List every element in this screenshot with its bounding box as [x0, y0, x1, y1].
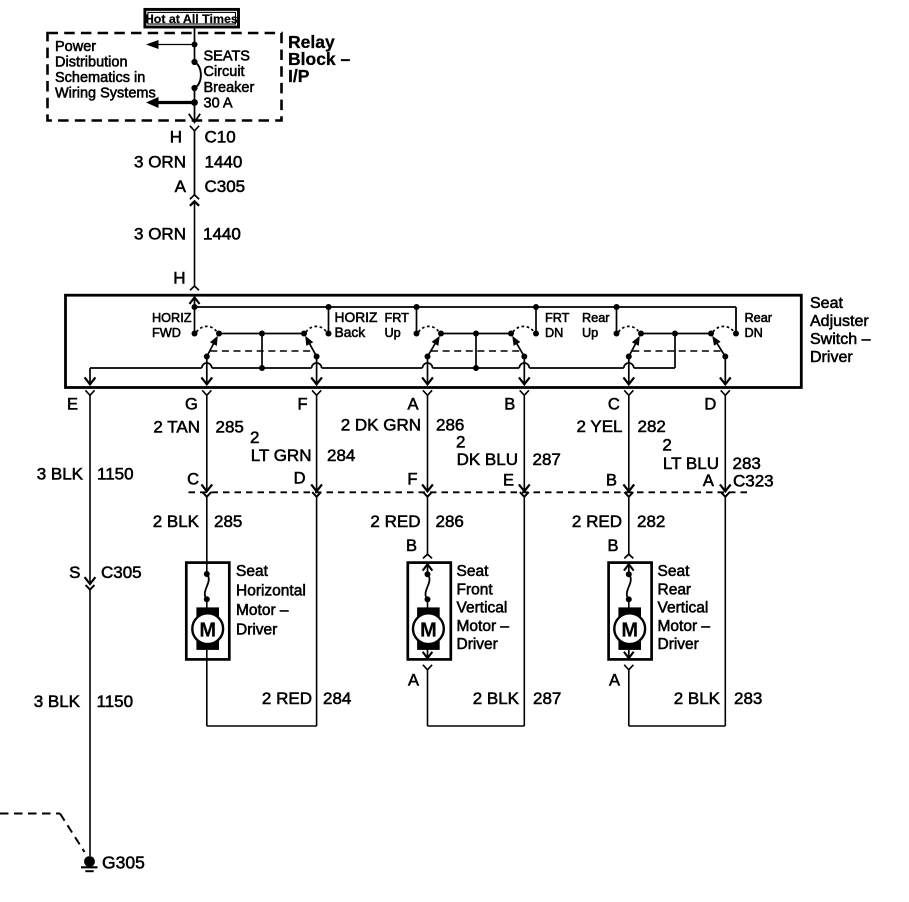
- wire motor 2 lower arrow: [423, 650, 431, 658]
- label 2 DK GRN 286: [341, 415, 465, 434]
- svg-text:Seat: Seat: [810, 295, 843, 312]
- label FRT Up: [385, 311, 410, 340]
- svg-text:Power: Power: [55, 39, 96, 55]
- svg-text:H: H: [170, 128, 182, 147]
- connector C323 pin C: [202, 485, 211, 497]
- svg-text:Up: Up: [385, 326, 401, 340]
- label A C305: [175, 177, 245, 196]
- svg-text:2 BLK: 2 BLK: [674, 689, 721, 708]
- seat adjuster switch box outline: [66, 295, 802, 387]
- wire blade output HORIZ FWD: [202, 357, 211, 385]
- label C323: [733, 472, 774, 491]
- thick feed arrow: [146, 97, 195, 108]
- wire terminal G down: [206, 395, 208, 491]
- connector C305 inline terminal S: [85, 578, 94, 856]
- svg-text:Seat: Seat: [658, 563, 691, 580]
- svg-text:A: A: [407, 396, 418, 414]
- connector fork terminal B: [520, 390, 529, 395]
- connector fork terminal G: [202, 390, 211, 395]
- thin arrow to power distribution: [146, 40, 195, 49]
- wire feed stub Rear Up: [616, 307, 618, 334]
- label 2 RED 286: [370, 512, 463, 531]
- switch travel arc FRT Up: [419, 326, 440, 332]
- node contact FRT Up: [414, 331, 420, 337]
- svg-text:Breaker: Breaker: [204, 80, 255, 96]
- svg-text:2: 2: [250, 428, 259, 447]
- node bus junction Rear Up: [614, 304, 620, 310]
- seat rear vertical motor box: [609, 563, 652, 660]
- connector fork terminal D: [721, 390, 730, 395]
- svg-text:B: B: [607, 537, 618, 555]
- mechanical link pair 3: [632, 350, 722, 352]
- svg-text:Motor –: Motor –: [236, 602, 289, 619]
- svg-text:2 RED: 2 RED: [370, 512, 420, 531]
- label terminal D: [704, 396, 716, 414]
- common bar pair 1: [216, 331, 307, 337]
- label terminal A: [407, 396, 418, 414]
- label G305: [102, 853, 145, 873]
- label C323 pin C: [187, 471, 199, 489]
- mechanical link pair 2: [431, 350, 521, 352]
- motor M2 internals: [413, 564, 444, 650]
- wire E riser motor 2 return: [428, 497, 525, 726]
- label 2 BLK 287: [473, 689, 562, 708]
- label C323 pin E: [503, 472, 514, 490]
- wire feed stub FRT DN: [535, 307, 537, 334]
- node contact FRT DN: [533, 331, 539, 337]
- label H C10: [170, 128, 236, 147]
- switch blade Rear DN: [712, 336, 728, 360]
- label Seat Adjuster Switch - Driver: [810, 295, 871, 366]
- svg-text:FWD: FWD: [152, 326, 181, 340]
- svg-text:283: 283: [733, 454, 761, 473]
- label C323 pin A: [703, 472, 714, 490]
- svg-text:A: A: [175, 177, 187, 196]
- connector fork terminal C: [624, 390, 633, 395]
- label terminal F: [298, 396, 308, 414]
- label 2 LT GRN 284: [250, 428, 355, 465]
- label 2 DK BLU 287: [456, 432, 561, 469]
- connector C323 dashed line: [189, 491, 748, 493]
- svg-text:Circuit: Circuit: [204, 64, 245, 80]
- label C323 pin B: [606, 472, 617, 490]
- node rail junction pair 1: [259, 365, 265, 371]
- svg-text:H: H: [173, 269, 185, 288]
- connector fork motor 2 terminal B: [423, 554, 432, 558]
- label terminal G: [185, 396, 198, 414]
- svg-text:30 A: 30 A: [204, 96, 233, 112]
- label 2 BLK 283: [674, 689, 763, 708]
- svg-text:C: C: [608, 396, 620, 414]
- svg-text:283: 283: [734, 689, 762, 708]
- label 2 LT BLU 283: [662, 435, 761, 473]
- label C323 pin D: [294, 470, 306, 488]
- svg-text:2: 2: [456, 432, 465, 451]
- seat horizontal motor box: [186, 563, 229, 660]
- svg-text:Driver: Driver: [236, 622, 277, 639]
- label Seat Rear Vertical Motor - Driver: [658, 563, 711, 653]
- svg-text:284: 284: [323, 689, 351, 708]
- svg-text:1440: 1440: [203, 225, 241, 244]
- relay block dashed box: [48, 33, 282, 121]
- common rail wire to terminal E: [90, 363, 675, 368]
- svg-text:B: B: [504, 396, 515, 414]
- connector C323 pin F: [423, 485, 432, 497]
- svg-text:E: E: [503, 472, 514, 490]
- label Seat Horizontal Motor - Driver: [236, 563, 306, 639]
- svg-text:M: M: [420, 620, 437, 642]
- svg-text:FRT: FRT: [545, 311, 570, 325]
- svg-text:Adjuster: Adjuster: [810, 313, 869, 330]
- svg-text:Vertical: Vertical: [658, 600, 709, 617]
- wire feed stub HORIZ FWD: [194, 307, 196, 334]
- node bus junction FRT DN: [533, 304, 539, 310]
- switch blade HORIZ Back: [305, 336, 319, 360]
- svg-text:B: B: [406, 537, 417, 555]
- svg-text:FRT: FRT: [385, 311, 410, 325]
- switch travel arc Rear DN: [713, 326, 734, 332]
- connector fork terminal F: [312, 390, 321, 395]
- wire F down to motor 2 fork: [427, 497, 429, 554]
- svg-text:DK BLU: DK BLU: [457, 450, 518, 469]
- label C323 pin F: [407, 471, 417, 489]
- wire blade output Rear Up: [624, 357, 633, 385]
- wire blade output Rear DN: [721, 357, 730, 385]
- wire terminal D down: [724, 395, 726, 491]
- motor M3 internals: [614, 564, 645, 650]
- svg-text:Horizontal: Horizontal: [236, 583, 306, 600]
- svg-text:C323: C323: [733, 472, 774, 491]
- wire breaker to thick arrow node: [194, 88, 196, 103]
- center tap wire pair 2: [475, 334, 477, 369]
- svg-text:2 RED: 2 RED: [572, 512, 622, 531]
- note Power Distribution Schematics in Wiring Systems: [55, 39, 156, 102]
- svg-text:3 BLK: 3 BLK: [37, 465, 84, 484]
- svg-text:DN: DN: [745, 326, 763, 340]
- svg-text:M: M: [621, 620, 638, 642]
- node contact Rear Up: [614, 331, 620, 337]
- wire terminal E down: [89, 395, 91, 584]
- switch travel arc HORIZ Back: [306, 326, 327, 332]
- switch blade FRT Up: [425, 336, 440, 360]
- svg-text:B: B: [606, 472, 617, 490]
- label 2 BLK 285: [153, 512, 243, 531]
- label SEATS Circuit Breaker 30 A: [204, 49, 255, 112]
- circuit breaker SEATS 30 A: [191, 59, 200, 91]
- wire terminal B down: [523, 395, 525, 491]
- node bus junction HORIZ Back: [326, 304, 332, 310]
- svg-text:285: 285: [214, 512, 242, 531]
- wire feed stub FRT Up: [416, 307, 418, 334]
- svg-text:2 DK GRN: 2 DK GRN: [341, 415, 421, 434]
- svg-text:D: D: [704, 396, 716, 414]
- svg-text:F: F: [407, 471, 417, 489]
- svg-text:Motor –: Motor –: [457, 618, 510, 635]
- label HORIZ Back: [335, 310, 378, 340]
- svg-text:C10: C10: [205, 128, 236, 147]
- svg-text:3 ORN: 3 ORN: [134, 153, 186, 172]
- label Relay Block - I/P: [288, 32, 351, 86]
- svg-text:LT GRN: LT GRN: [251, 446, 312, 465]
- svg-text:282: 282: [637, 512, 665, 531]
- label FRT DN: [545, 311, 570, 340]
- svg-text:Vertical: Vertical: [457, 600, 508, 617]
- svg-text:Distribution: Distribution: [55, 55, 128, 71]
- svg-text:A: A: [609, 672, 620, 690]
- wire blade output HORIZ Back: [312, 357, 321, 385]
- node contact HORIZ FWD: [192, 331, 198, 337]
- wire B down to motor 3 fork: [628, 497, 630, 554]
- wire H entry arrow into bus: [190, 297, 199, 307]
- wire terminal C down: [628, 395, 630, 491]
- label terminal C: [608, 396, 620, 414]
- label terminal B: [504, 396, 515, 414]
- switch travel arc Rear Up: [619, 326, 640, 332]
- svg-text:S: S: [69, 563, 80, 582]
- svg-text:Hot at All Times: Hot at All Times: [145, 12, 238, 26]
- svg-text:Back: Back: [335, 325, 366, 340]
- svg-text:C305: C305: [205, 177, 246, 196]
- switch blade HORIZ FWD: [204, 336, 218, 360]
- label HORIZ FWD: [152, 311, 192, 340]
- svg-text:D: D: [294, 470, 306, 488]
- svg-text:SEATS: SEATS: [204, 49, 250, 65]
- svg-text:Rear: Rear: [745, 311, 773, 325]
- wire from Hot box to relay block: [194, 29, 196, 45]
- wire motor 1 bottom out: [206, 650, 208, 726]
- svg-text:I/P: I/P: [288, 66, 310, 86]
- svg-text:3 BLK: 3 BLK: [34, 692, 81, 711]
- svg-text:Switch –: Switch –: [810, 331, 871, 348]
- node junction at breaker feed: [192, 42, 198, 63]
- svg-text:Seat: Seat: [457, 563, 490, 580]
- connector C10 fork terminal H: [190, 126, 199, 131]
- center tap wire pair 1: [261, 334, 263, 369]
- svg-text:Driver: Driver: [810, 349, 853, 366]
- label terminal B motor 3: [607, 537, 618, 555]
- label terminal E: [67, 396, 78, 414]
- switch travel arc HORIZ FWD: [197, 326, 218, 332]
- wire terminal A down: [427, 395, 429, 491]
- svg-text:2 BLK: 2 BLK: [153, 512, 200, 531]
- svg-text:282: 282: [638, 417, 666, 436]
- svg-text:LT BLU: LT BLU: [663, 454, 719, 473]
- wire blade output FRT Up: [423, 357, 432, 385]
- label terminal A motor 3: [609, 672, 620, 690]
- connector fork terminal E: [85, 390, 94, 395]
- svg-text:HORIZ: HORIZ: [335, 310, 378, 325]
- svg-text:2 TAN: 2 TAN: [153, 417, 200, 436]
- svg-text:F: F: [298, 396, 308, 414]
- label 2 RED 284: [262, 689, 351, 708]
- svg-text:Motor –: Motor –: [658, 618, 711, 635]
- switch travel arc FRT DN: [513, 326, 534, 332]
- svg-text:Rear: Rear: [658, 581, 692, 598]
- svg-text:Driver: Driver: [658, 636, 699, 653]
- connector fork motor 3 terminal B: [624, 554, 633, 558]
- wire motor 3 lower arrow: [625, 650, 633, 658]
- connector fork motor 2 terminal A: [423, 665, 432, 726]
- svg-text:DN: DN: [545, 326, 563, 340]
- motor M1 internals: [192, 561, 223, 650]
- svg-text:Rear: Rear: [582, 311, 610, 325]
- svg-text:2: 2: [662, 435, 671, 454]
- node rail junction pair 2: [473, 365, 479, 371]
- wire C down to motor 1: [206, 497, 208, 562]
- svg-text:1150: 1150: [97, 465, 134, 484]
- wire feed stub HORIZ Back: [328, 307, 330, 334]
- svg-text:HORIZ: HORIZ: [152, 311, 192, 325]
- center tap wire pair 3: [674, 334, 676, 369]
- svg-text:2 RED: 2 RED: [262, 689, 312, 708]
- bus wire top rail: [195, 307, 737, 334]
- connector C305 inline chevrons: [190, 195, 199, 286]
- label 3 ORN 1440 upper: [134, 153, 242, 172]
- svg-text:284: 284: [327, 446, 355, 465]
- svg-text:Front: Front: [457, 581, 494, 598]
- svg-text:Up: Up: [582, 326, 598, 340]
- wire through C10: [194, 131, 196, 195]
- node contact Rear DN: [733, 331, 739, 337]
- label 2 TAN 285: [153, 417, 243, 436]
- label box Hot at All Times: [145, 9, 239, 27]
- label S C305: [69, 563, 141, 582]
- label 3 BLK 1150 upper: [37, 465, 134, 484]
- label 2 YEL 282: [576, 417, 665, 436]
- wire rail drop to E: [85, 368, 94, 384]
- connector fork motor 3 terminal A: [624, 665, 633, 726]
- svg-text:2 YEL: 2 YEL: [576, 417, 622, 436]
- connector fork at switch box top: [190, 286, 199, 290]
- label terminal H at switch: [173, 269, 185, 288]
- node bus junction HORIZ FWD: [192, 304, 198, 310]
- connector C323 pin A: [721, 485, 730, 497]
- label 3 ORN 1440 lower: [134, 225, 241, 244]
- dashed wire other circuit: [0, 814, 85, 853]
- node bus junction FRT Up: [414, 304, 420, 310]
- svg-text:286: 286: [436, 512, 464, 531]
- label 3 BLK 1150 lower: [34, 692, 133, 711]
- label terminal B motor 2: [406, 537, 417, 555]
- svg-text:C: C: [187, 471, 199, 489]
- label Rear DN: [745, 311, 773, 340]
- label Rear Up: [582, 311, 610, 340]
- node junction at thick arrow: [191, 99, 198, 106]
- switch blade FRT DN: [512, 336, 527, 360]
- seat front vertical motor box: [408, 563, 451, 660]
- mechanical link pair 1: [210, 350, 313, 352]
- svg-text:285: 285: [216, 417, 244, 436]
- label terminal A motor 2: [408, 672, 419, 690]
- wire blade output FRT DN: [520, 357, 529, 385]
- wire down with arrow exiting relay block: [189, 103, 199, 123]
- connector fork terminal A: [423, 390, 432, 395]
- ground G305: [81, 856, 98, 871]
- common bar pair 3: [638, 331, 714, 337]
- connector C323 pin E: [520, 485, 529, 497]
- label Seat Front Vertical Motor - Driver: [457, 563, 510, 653]
- svg-text:A: A: [703, 472, 714, 490]
- svg-text:2 BLK: 2 BLK: [473, 689, 520, 708]
- svg-text:C305: C305: [101, 563, 142, 582]
- connector C323 pin D: [312, 485, 321, 497]
- svg-text:1150: 1150: [97, 692, 134, 711]
- svg-text:G305: G305: [102, 853, 145, 873]
- svg-text:287: 287: [533, 450, 561, 469]
- wire D riser motor 1 return: [207, 497, 317, 726]
- svg-text:M: M: [199, 620, 216, 642]
- svg-text:1440: 1440: [205, 153, 243, 172]
- svg-text:G: G: [185, 396, 198, 414]
- wire terminal F down: [316, 395, 318, 491]
- label 2 RED 282: [572, 512, 665, 531]
- connector C323 pin B: [624, 485, 633, 497]
- svg-text:Seat: Seat: [236, 563, 269, 580]
- svg-text:Schematics in: Schematics in: [55, 70, 145, 86]
- svg-text:Wiring Systems: Wiring Systems: [55, 86, 156, 102]
- switch blade Rear Up: [626, 336, 640, 360]
- svg-text:E: E: [67, 396, 78, 414]
- common bar pair 2: [438, 331, 514, 337]
- svg-text:3 ORN: 3 ORN: [134, 225, 186, 244]
- node contact HORIZ Back: [326, 331, 332, 337]
- svg-text:Driver: Driver: [457, 636, 498, 653]
- svg-text:287: 287: [533, 689, 561, 708]
- wire A riser motor 3 return: [629, 497, 726, 726]
- svg-text:A: A: [408, 672, 419, 690]
